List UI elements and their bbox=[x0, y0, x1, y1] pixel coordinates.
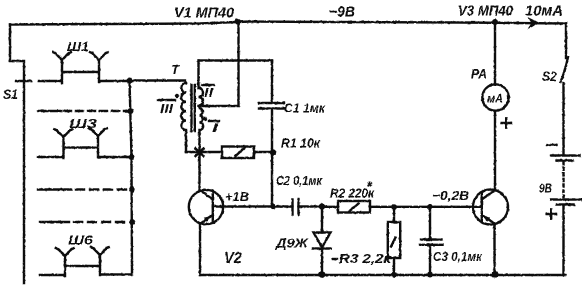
svg-text:R3 2,2к: R3 2,2к bbox=[339, 251, 393, 266]
svg-text:V2: V2 bbox=[224, 250, 242, 267]
svg-text:мА: мА bbox=[487, 92, 503, 106]
svg-text:Ш1: Ш1 bbox=[67, 39, 89, 54]
svg-text:−0,2В: −0,2В bbox=[432, 188, 469, 203]
svg-text:Ш3: Ш3 bbox=[69, 116, 98, 131]
svg-text:С3 0,1мк: С3 0,1мк bbox=[433, 249, 483, 264]
svg-text:R1 10к: R1 10к bbox=[281, 136, 321, 151]
svg-text:S2: S2 bbox=[542, 68, 557, 84]
svg-text:S1: S1 bbox=[3, 86, 18, 102]
svg-text:10мА: 10мА bbox=[525, 3, 563, 20]
svg-text:II: II bbox=[204, 85, 213, 100]
svg-text:+1В: +1В bbox=[225, 189, 249, 204]
svg-text:9В: 9В bbox=[539, 181, 552, 196]
svg-text:I: I bbox=[212, 120, 219, 135]
svg-text:С2 0,1мк: С2 0,1мк bbox=[276, 173, 323, 188]
svg-text:V3 МП40: V3 МП40 bbox=[458, 3, 514, 20]
svg-text:III: III bbox=[160, 101, 173, 116]
svg-text:Ш6: Ш6 bbox=[68, 233, 94, 248]
svg-text:Д9Ж: Д9Ж bbox=[275, 236, 309, 251]
svg-text:Т: Т bbox=[171, 62, 180, 77]
svg-text:РА: РА bbox=[471, 66, 487, 82]
svg-text:−9В: −9В bbox=[329, 4, 355, 21]
svg-text:V1 МП40: V1 МП40 bbox=[174, 5, 235, 22]
svg-text:С1 1мк: С1 1мк bbox=[284, 101, 326, 116]
